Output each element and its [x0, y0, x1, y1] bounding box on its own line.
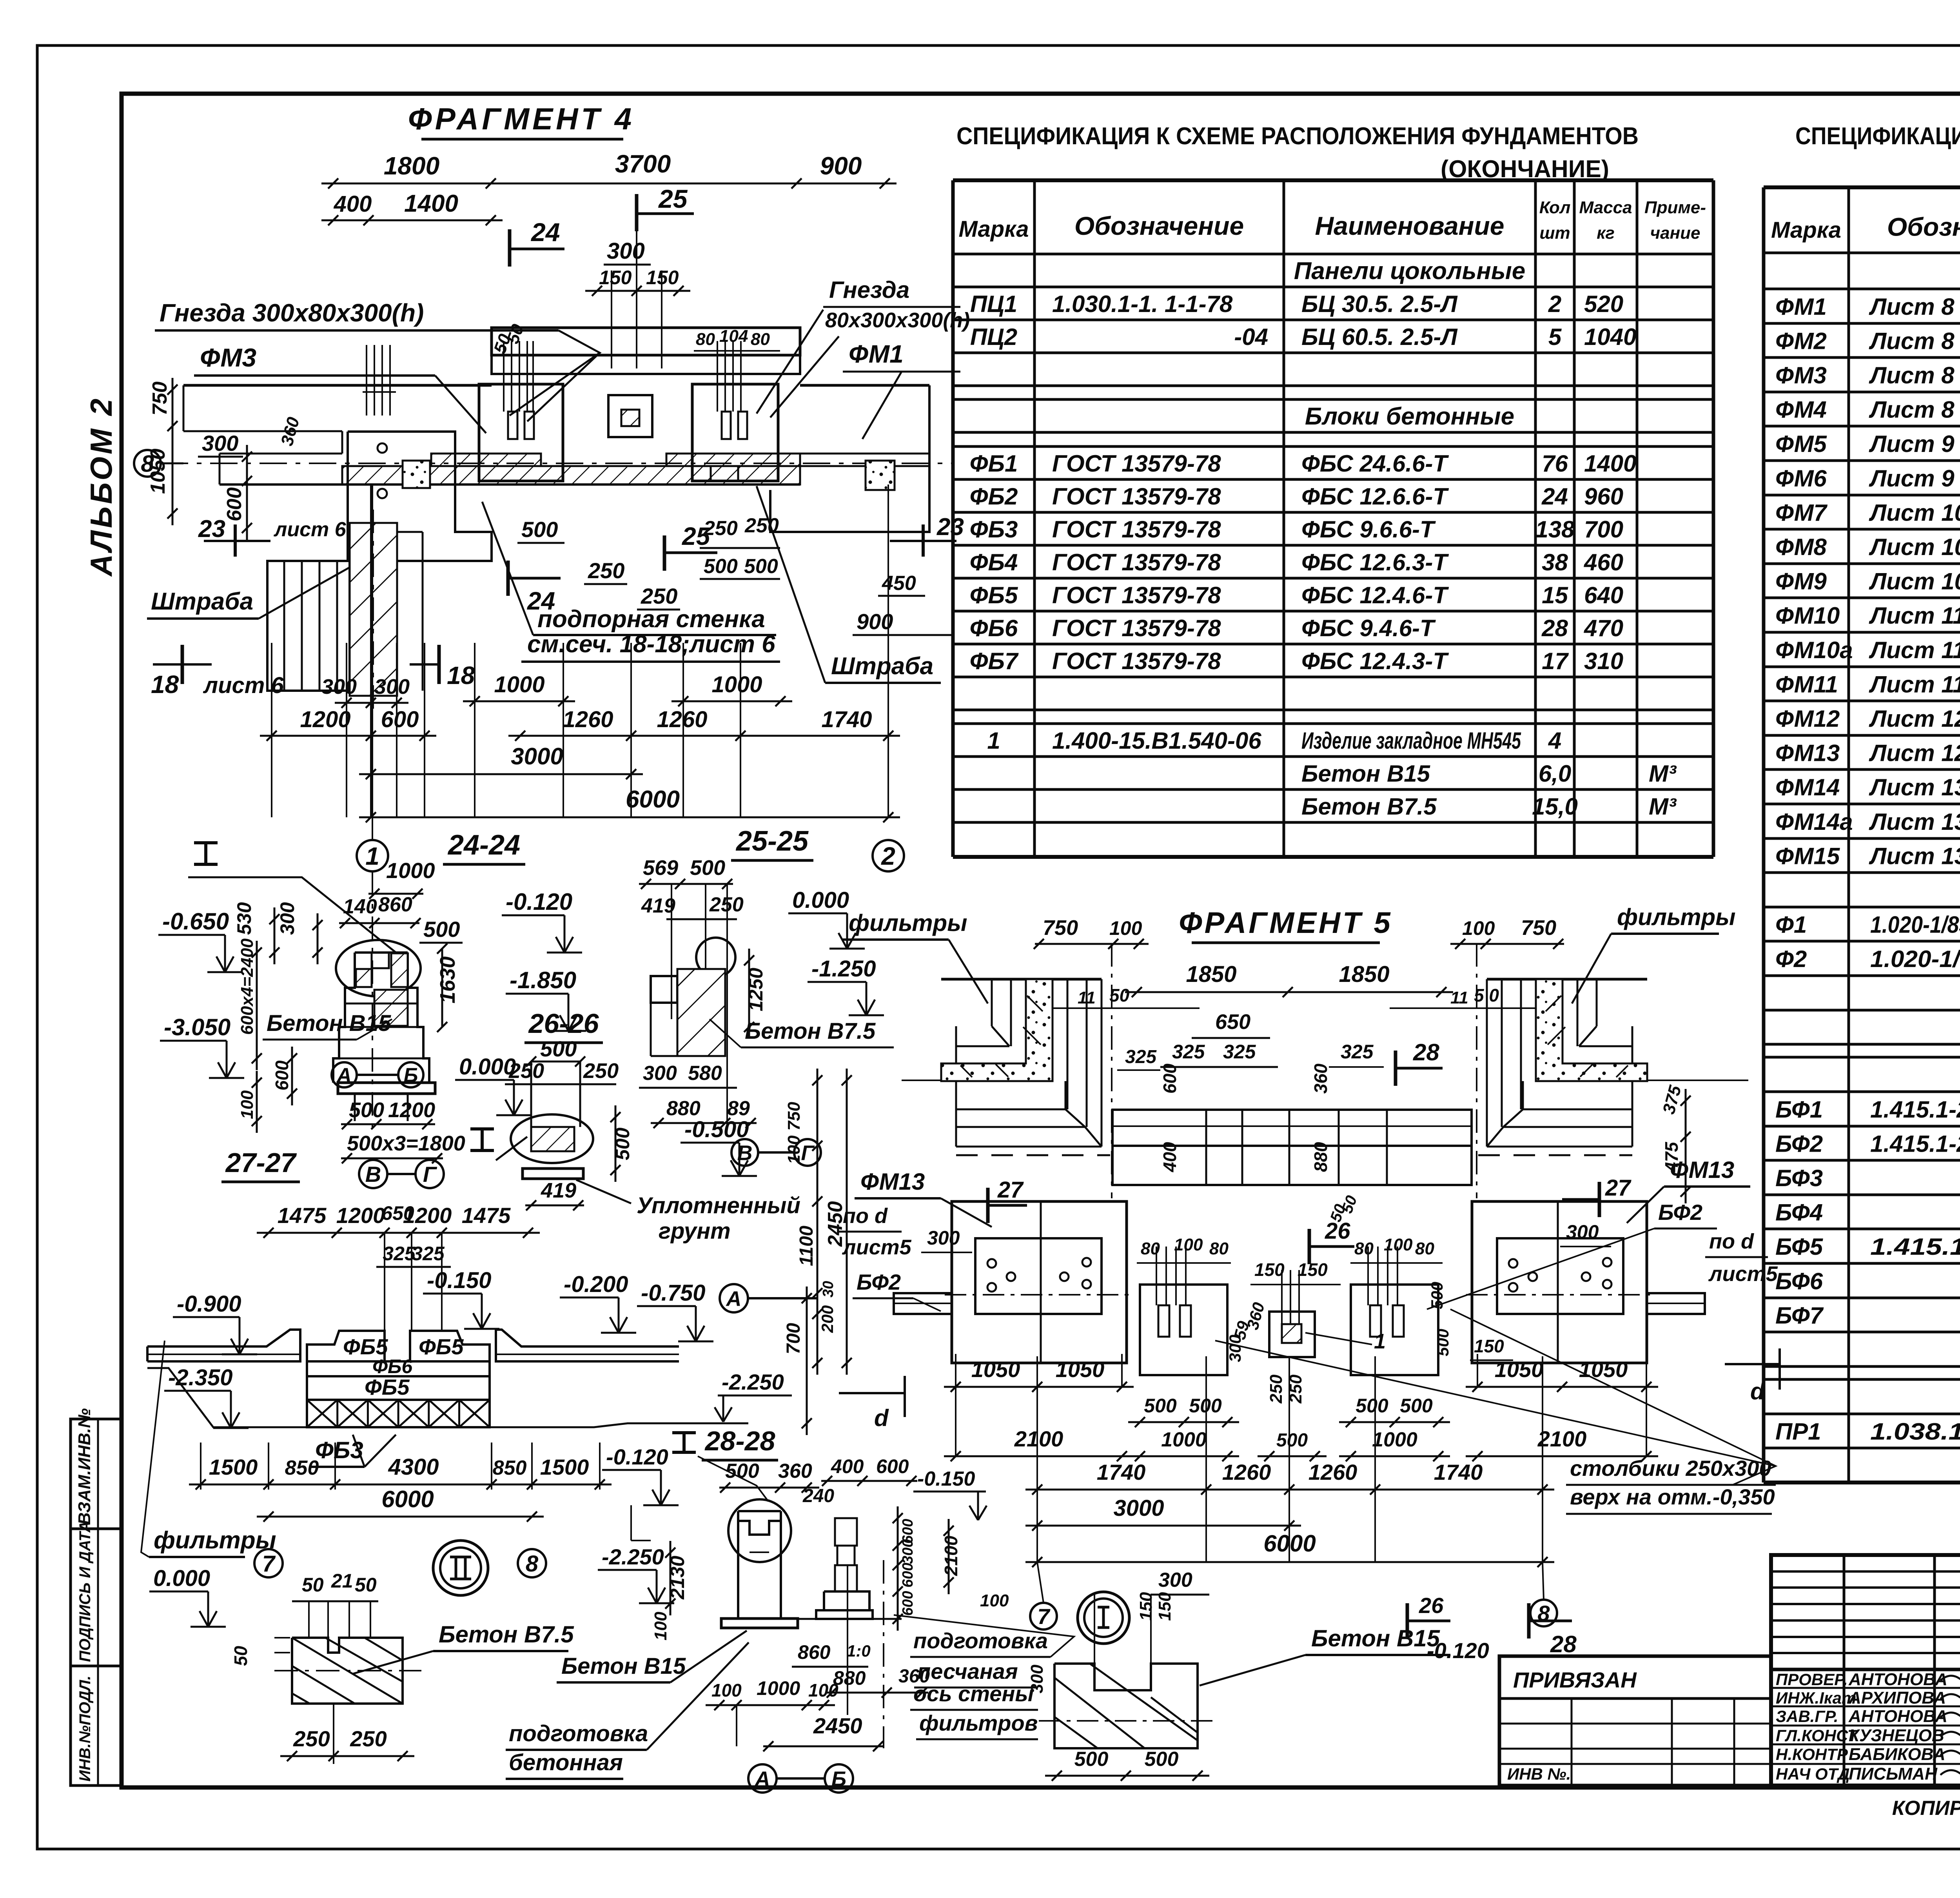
svg-text:ФБС 9.4.6-Т: ФБС 9.4.6-Т	[1301, 615, 1436, 641]
dotted wall band right (L-shape)	[1536, 979, 1647, 1081]
svg-text:ФБС 12.6.6-Т: ФБС 12.6.6-Т	[1301, 483, 1449, 510]
svg-text:80: 80	[1354, 1239, 1374, 1258]
svg-text:300: 300	[927, 1227, 960, 1249]
svg-text:Лист 8: Лист 8	[1869, 397, 1955, 423]
svg-text:2100: 2100	[941, 1535, 961, 1576]
svg-text:600: 600	[381, 707, 419, 732]
base flange 28-28	[721, 1619, 798, 1628]
svg-text:лист 6: лист 6	[273, 518, 347, 541]
svg-text:ФБ7: ФБ7	[970, 648, 1019, 674]
svg-text:1400: 1400	[1584, 450, 1636, 477]
svg-text:5: 5	[1548, 324, 1562, 350]
svg-text:БЦ 60.5. 2.5-Л: БЦ 60.5. 2.5-Л	[1301, 324, 1458, 350]
base slab 24-24	[338, 1083, 435, 1094]
svg-text:Марка: Марка	[1771, 218, 1841, 243]
elevation 0.000 top left of 28-28 (in f5 zone)	[631, 1540, 651, 1541]
svg-text:Бетон В7.5: Бетон В7.5	[439, 1621, 574, 1648]
svg-text:ФБ5: ФБ5	[419, 1334, 464, 1359]
svg-text:300: 300	[900, 1539, 916, 1564]
svg-text:1260: 1260	[1222, 1460, 1271, 1484]
svg-text:-0.500: -0.500	[684, 1117, 749, 1142]
dim 6000	[257, 1516, 544, 1518]
svg-text:ФБ5: ФБ5	[365, 1375, 410, 1399]
sign I with leader to col 24-24	[194, 841, 218, 844]
axis circles 7 II 8	[254, 1549, 283, 1577]
vertical dim chain left of fragment 5	[846, 1069, 848, 1375]
svg-text:Лист 13: Лист 13	[1869, 809, 1960, 835]
right slab 27-27	[496, 1330, 679, 1361]
svg-text:d: d	[1750, 1378, 1765, 1404]
extension verticals f5	[1036, 1356, 1038, 1562]
svg-text:8: 8	[526, 1551, 539, 1577]
svg-text:18: 18	[447, 661, 475, 690]
svg-text:-0.120: -0.120	[606, 1444, 668, 1469]
svg-text:АНТОНОВА: АНТОНОВА	[1848, 1707, 1947, 1726]
svg-text:1.038.1-1. Вып.1: 1.038.1-1. Вып.1	[1870, 1419, 1960, 1445]
svg-text:ГОСТ 13579-78: ГОСТ 13579-78	[1052, 450, 1221, 477]
right spec table grid	[1762, 187, 1766, 1482]
sign II at 26-26	[470, 1127, 494, 1130]
column block 2	[692, 384, 778, 481]
dotted wall band left (L-shape)	[941, 979, 1053, 1081]
svg-text:Лист 9: Лист 9	[1869, 465, 1955, 492]
svg-text:100: 100	[1109, 917, 1142, 939]
dim 3000 f5	[1025, 1525, 1301, 1527]
svg-text:250: 250	[293, 1726, 330, 1751]
svg-text:500: 500	[540, 1036, 577, 1061]
svg-text:300: 300	[321, 675, 357, 699]
circles A B bottom	[748, 1764, 777, 1793]
dashed axis through band	[161, 463, 953, 464]
23 mark right	[922, 524, 925, 557]
svg-text:Блоки бетонные: Блоки бетонные	[1305, 403, 1514, 430]
X-braced band	[307, 1400, 490, 1427]
svg-text:ФМ3: ФМ3	[200, 343, 256, 372]
svg-text:500: 500	[1428, 1282, 1446, 1309]
left margin stamp boxes	[71, 1419, 122, 1529]
center pier left	[1140, 1285, 1227, 1375]
svg-text:Панели цокольные: Панели цокольные	[1294, 258, 1526, 285]
middle spec table grid	[951, 180, 955, 857]
svg-text:150: 150	[1254, 1259, 1285, 1280]
main band outline	[183, 384, 492, 387]
svg-text:-2.250: -2.250	[722, 1370, 784, 1394]
svg-text:ФБС 12.4.6-Т: ФБС 12.4.6-Т	[1301, 582, 1449, 608]
svg-text:ФБ1: ФБ1	[970, 450, 1018, 477]
svg-text:500: 500	[744, 555, 778, 578]
svg-text:300: 300	[276, 902, 298, 935]
svg-text:50: 50	[1109, 985, 1130, 1005]
svg-text:100: 100	[1384, 1235, 1413, 1254]
svg-text:ФБС 9.6.6-Т: ФБС 9.6.6-Т	[1301, 516, 1436, 543]
svg-text:28: 28	[1541, 615, 1568, 641]
bubble circle 28-28	[728, 1499, 791, 1562]
svg-text:ПИСЬМАН: ПИСЬМАН	[1849, 1764, 1938, 1784]
dims 1050 1050 right	[1466, 1386, 1658, 1388]
svg-text:ФМ8: ФМ8	[1775, 534, 1827, 560]
svg-text:М³: М³	[1649, 793, 1677, 820]
elevation 0.000 25-25	[788, 913, 847, 915]
svg-text:600: 600	[223, 487, 246, 521]
svg-text:15: 15	[1542, 582, 1568, 608]
elevation 0.000 26-26	[455, 1079, 514, 1081]
svg-text:Лист 9: Лист 9	[1869, 431, 1955, 457]
FB5 band2	[307, 1376, 490, 1400]
svg-text:1475: 1475	[462, 1203, 511, 1228]
svg-text:18: 18	[151, 670, 179, 699]
svg-text:28-28: 28-28	[704, 1426, 775, 1456]
svg-text:6000: 6000	[626, 786, 680, 813]
svg-text:ФБ2: ФБ2	[970, 483, 1018, 510]
svg-text:Уплотненный: Уплотненный	[637, 1193, 800, 1218]
svg-text:1050: 1050	[1495, 1357, 1544, 1382]
svg-text:30: 30	[820, 1281, 837, 1297]
dim 1850 1850	[1125, 991, 1453, 993]
dim 1630	[441, 949, 443, 1027]
svg-text:500: 500	[612, 1127, 633, 1160]
svg-text:700: 700	[783, 1323, 804, 1354]
svg-text:100: 100	[1462, 917, 1495, 939]
dim 6000	[359, 817, 900, 818]
svg-text:-0.750: -0.750	[641, 1280, 705, 1306]
svg-text:50: 50	[302, 1574, 324, 1596]
dims 500 500 under block	[1045, 1775, 1209, 1777]
dims 250 250 under footing	[333, 1704, 334, 1764]
svg-text:5 0: 5 0	[1474, 985, 1499, 1005]
svg-text:50: 50	[230, 1646, 251, 1666]
svg-text:ГОСТ 13579-78: ГОСТ 13579-78	[1052, 516, 1221, 543]
svg-text:подготовка: подготовка	[913, 1628, 1048, 1653]
svg-text:ФМ9: ФМ9	[1775, 568, 1827, 595]
svg-text:Бетон В7.5: Бетон В7.5	[1301, 793, 1437, 820]
svg-text:-0.120: -0.120	[506, 889, 572, 915]
svg-text:530: 530	[233, 902, 255, 935]
svg-text:1050: 1050	[1579, 1357, 1628, 1382]
svg-text:Бетон В15: Бетон В15	[267, 1011, 391, 1036]
svg-text:500: 500	[521, 517, 558, 542]
svg-text:300: 300	[374, 675, 410, 699]
svg-text:-0.900: -0.900	[177, 1291, 241, 1317]
svg-text:ГОСТ 13579-78: ГОСТ 13579-78	[1052, 549, 1221, 575]
column 28-28 with key notch	[738, 1511, 781, 1535]
svg-text:1260: 1260	[657, 707, 707, 732]
svg-text:860: 860	[798, 1641, 831, 1663]
FB6 band	[307, 1361, 490, 1376]
svg-text:-1.250: -1.250	[811, 956, 876, 982]
svg-text:фильтров: фильтров	[919, 1711, 1038, 1735]
svg-text:бетонная: бетонная	[509, 1750, 623, 1775]
left block FM3 outline	[348, 432, 492, 561]
svg-text:ФБ6: ФБ6	[970, 615, 1018, 641]
circles A B under 26-26	[332, 1062, 357, 1087]
svg-text:50: 50	[355, 1574, 377, 1596]
svg-text:1740: 1740	[1434, 1460, 1483, 1484]
mark 28 top	[1394, 1051, 1397, 1086]
svg-text:1100: 1100	[796, 1225, 817, 1266]
svg-text:1:0: 1:0	[847, 1642, 871, 1660]
center pier middle small	[1269, 1312, 1315, 1357]
svg-text:БФ5: БФ5	[1775, 1234, 1824, 1260]
lower nested corner right	[1523, 1109, 1632, 1110]
svg-text:А: А	[336, 1064, 352, 1087]
svg-text:ФМ13: ФМ13	[1775, 740, 1840, 766]
svg-text:100: 100	[711, 1680, 742, 1700]
left filter block	[952, 1201, 1127, 1363]
svg-text:23: 23	[198, 515, 225, 543]
svg-text:ФБС 12.4.3-Т: ФБС 12.4.3-Т	[1301, 648, 1449, 674]
svg-text:1040: 1040	[1584, 324, 1636, 350]
svg-text:600х4=2400: 600х4=2400	[238, 938, 257, 1035]
svg-text:1850: 1850	[1339, 962, 1389, 987]
svg-text:1800: 1800	[384, 152, 439, 180]
svg-text:1: 1	[1374, 1330, 1386, 1353]
svg-text:2130: 2130	[666, 1556, 688, 1600]
svg-text:150: 150	[1474, 1336, 1504, 1356]
svg-text:500: 500	[1400, 1395, 1433, 1417]
svg-text:0.000: 0.000	[792, 887, 849, 913]
svg-text:27: 27	[997, 1177, 1024, 1203]
svg-text:1250: 1250	[745, 968, 767, 1011]
mark 27 right	[1598, 1182, 1601, 1217]
svg-text:АЛЬБОМ 2: АЛЬБОМ 2	[84, 396, 118, 577]
svg-text:325: 325	[1223, 1041, 1256, 1063]
center beam band	[1112, 1110, 1472, 1146]
svg-text:1: 1	[987, 728, 1000, 754]
circles V G under 24-24	[359, 1160, 387, 1188]
svg-text:Лист 12: Лист 12	[1869, 706, 1960, 732]
svg-text:25-25: 25-25	[735, 826, 809, 857]
svg-text:150: 150	[1136, 1592, 1156, 1621]
dim 3000	[359, 773, 643, 775]
svg-text:ПЦ2: ПЦ2	[970, 324, 1017, 350]
svg-text:23: 23	[936, 514, 964, 541]
left vertical dims 750/1050	[172, 378, 174, 525]
svg-text:4300: 4300	[388, 1454, 439, 1480]
svg-text:песчаная: песчаная	[917, 1659, 1018, 1684]
svg-text:ВЗАМ.ИНВ.№: ВЗАМ.ИНВ.№	[75, 1408, 94, 1525]
svg-text:1000: 1000	[757, 1677, 800, 1699]
27-27 top dims 1475/1200/650/1200/1475	[257, 1232, 540, 1234]
svg-text:1200: 1200	[300, 707, 350, 732]
25-25 body	[651, 976, 677, 1003]
svg-text:В: В	[737, 1141, 753, 1165]
dim 2130 rot	[670, 1541, 671, 1615]
svg-text:БФ4: БФ4	[1775, 1199, 1823, 1226]
svg-text:500: 500	[1356, 1395, 1388, 1417]
svg-text:400: 400	[1160, 1142, 1180, 1172]
svg-text:200: 200	[818, 1305, 837, 1333]
pill bubble 26-26	[511, 1114, 593, 1163]
FB5 blocks	[307, 1331, 385, 1361]
column block 1	[479, 384, 563, 481]
axis A mark left of BF2 stub	[720, 1284, 748, 1312]
svg-text:Ф1: Ф1	[1775, 912, 1807, 938]
elevation -1.850	[506, 993, 568, 995]
svg-text:АНТОНОВА: АНТОНОВА	[1848, 1670, 1947, 1689]
svg-text:11: 11	[1450, 988, 1468, 1007]
svg-text:М³: М³	[1649, 760, 1677, 787]
right block outline	[770, 385, 929, 532]
svg-text:-2.350: -2.350	[168, 1365, 232, 1390]
svg-text:Лист 11: Лист 11	[1869, 637, 1960, 663]
svg-text:880: 880	[1310, 1142, 1331, 1172]
svg-text:Лист 8: Лист 8	[1869, 294, 1955, 320]
rotated chain 600 300 600 600 + 2100	[897, 1506, 899, 1631]
hatched pier	[350, 523, 397, 696]
right corner wall structure	[1487, 978, 1647, 981]
svg-text:ФБС 12.6.3-Т: ФБС 12.6.3-Т	[1301, 549, 1449, 575]
svg-text:БЦ 30.5. 2.5-Л: БЦ 30.5. 2.5-Л	[1301, 291, 1458, 317]
lower nested corner left	[956, 1109, 1065, 1110]
elevation -2.250	[598, 1569, 657, 1571]
svg-text:-3.050: -3.050	[164, 1014, 230, 1040]
svg-text:ПОДПИСЬ И ДАТА: ПОДПИСЬ И ДАТА	[76, 1521, 94, 1662]
23 list6 mark left	[234, 524, 237, 557]
svg-text:Лист 8: Лист 8	[1869, 362, 1955, 388]
svg-text:24-24: 24-24	[447, 829, 520, 861]
svg-text:500: 500	[1276, 1430, 1308, 1451]
svg-text:38: 38	[1542, 549, 1568, 575]
left BF2 stub beam	[894, 1293, 952, 1314]
svg-text:фильтры: фильтры	[1617, 904, 1735, 930]
svg-text:ФРАГМЕНТ 4: ФРАГМЕНТ 4	[408, 102, 635, 136]
svg-text:ФМ11: ФМ11	[1775, 671, 1838, 698]
svg-text:В: В	[365, 1162, 381, 1187]
right vert dim 500	[615, 1105, 617, 1182]
svg-text:89: 89	[727, 1097, 750, 1120]
svg-text:1500: 1500	[540, 1455, 589, 1479]
svg-text:325: 325	[1125, 1047, 1157, 1067]
svg-text:Приме-: Приме-	[1644, 198, 1706, 217]
svg-text:419: 419	[641, 895, 675, 917]
svg-text:Гнезда 300х80х300(h): Гнезда 300х80х300(h)	[160, 299, 424, 327]
svg-text:1260: 1260	[1308, 1460, 1357, 1484]
svg-text:ФМ13: ФМ13	[860, 1169, 925, 1195]
svg-text:17: 17	[1542, 648, 1569, 674]
svg-text:2: 2	[1548, 291, 1561, 317]
svg-text:БФ1: БФ1	[1775, 1096, 1823, 1123]
svg-text:подготовка: подготовка	[509, 1721, 648, 1746]
svg-text:0.000: 0.000	[459, 1054, 516, 1080]
axis of filter wall dash-dot	[883, 1560, 884, 1748]
svg-text:Б: Б	[831, 1767, 846, 1791]
svg-text:100: 100	[1174, 1235, 1203, 1254]
svg-text:-0.650: -0.650	[162, 908, 229, 934]
svg-text:360: 360	[778, 1460, 812, 1482]
svg-text:1.415.1-2.1-2 -60: 1.415.1-2.1-2 -60	[1870, 1234, 1960, 1260]
svg-text:250: 250	[703, 517, 738, 540]
svg-text:по d: по d	[843, 1204, 888, 1228]
svg-text:грунт: грунт	[659, 1218, 731, 1244]
svg-text:7: 7	[1037, 1604, 1051, 1629]
bottom dims 1500 850 4300 850 1500	[200, 1443, 201, 1490]
svg-text:1050: 1050	[1056, 1357, 1105, 1382]
rebar vertical lines col1	[503, 341, 505, 412]
dims 1000 1000	[463, 700, 575, 702]
section mark 24 top	[508, 229, 512, 267]
svg-text:500: 500	[1074, 1748, 1109, 1771]
svg-text:80: 80	[1415, 1239, 1434, 1258]
svg-text:150: 150	[1155, 1592, 1174, 1621]
svg-text:d: d	[874, 1405, 889, 1431]
svg-text:1260: 1260	[563, 707, 613, 732]
svg-text:ФМ14: ФМ14	[1775, 774, 1840, 800]
svg-text:ГОСТ 13579-78: ГОСТ 13579-78	[1052, 582, 1221, 608]
svg-text:ФМ4: ФМ4	[1775, 397, 1827, 423]
ground line	[147, 1368, 490, 1427]
svg-text:27: 27	[1605, 1175, 1632, 1201]
svg-text:7: 7	[262, 1551, 276, 1577]
svg-text:600: 600	[876, 1455, 909, 1477]
elevation -0.120	[502, 915, 564, 916]
dims 1050 1050 left	[944, 1386, 1134, 1388]
svg-text:2: 2	[881, 842, 895, 870]
svg-text:80: 80	[1209, 1239, 1229, 1258]
svg-text:ИНВ №.: ИНВ №.	[1507, 1765, 1571, 1783]
25-25 little circle bubble	[696, 938, 735, 977]
svg-text:400: 400	[831, 1455, 864, 1477]
svg-text:1.415.1-2.1-1: 1.415.1-2.1-1	[1870, 1096, 1960, 1123]
svg-text:150: 150	[1298, 1259, 1328, 1280]
right filter block	[1472, 1201, 1647, 1363]
svg-text:325: 325	[412, 1243, 445, 1265]
svg-text:Лист 11: Лист 11	[1869, 671, 1960, 698]
elevation -0.500	[681, 1142, 739, 1144]
svg-text:БФ7: БФ7	[1775, 1303, 1824, 1329]
svg-text:900: 900	[820, 152, 862, 180]
sign I near 28-28	[672, 1431, 696, 1434]
svg-text:1.415.1-2.1-1-02: 1.415.1-2.1-1-02	[1870, 1131, 1960, 1157]
axis circles 7 I 8 bottom f5	[1030, 1603, 1057, 1629]
svg-text:750: 750	[1043, 916, 1078, 940]
svg-text:500: 500	[423, 917, 460, 942]
svg-text:ИНВ.№ПОДЛ.: ИНВ.№ПОДЛ.	[76, 1676, 94, 1782]
svg-text:Бетон В15: Бетон В15	[1311, 1625, 1441, 1651]
svg-text:240: 240	[802, 1486, 834, 1506]
svg-text:по d: по d	[1709, 1230, 1754, 1253]
svg-text:0.000: 0.000	[153, 1566, 210, 1591]
svg-text:138: 138	[1535, 516, 1575, 543]
svg-text:лист5: лист5	[842, 1236, 912, 1259]
svg-text:Ф2: Ф2	[1775, 946, 1807, 972]
svg-text:880: 880	[666, 1097, 701, 1120]
dims 1740 1260 1260 1740	[1025, 1489, 1554, 1491]
svg-text:БАБИКОВА: БАБИКОВА	[1849, 1745, 1945, 1764]
fragment 4 dim 400/1400	[321, 220, 503, 221]
long extension verticals to bottom dims	[271, 643, 272, 817]
svg-text:ФБ4: ФБ4	[970, 549, 1018, 575]
svg-text:500: 500	[704, 555, 738, 578]
svg-text:Бетон В15: Бетон В15	[1301, 760, 1431, 787]
svg-text:БФ2: БФ2	[1658, 1200, 1702, 1225]
svg-text:1200: 1200	[336, 1203, 385, 1228]
svg-text:БФ2: БФ2	[857, 1270, 901, 1294]
svg-text:750: 750	[1521, 916, 1556, 940]
svg-text:фильтры: фильтры	[849, 910, 967, 936]
svg-text:верх на отм.-0,350: верх на отм.-0,350	[1570, 1484, 1775, 1509]
svg-text:11: 11	[1078, 988, 1096, 1007]
18 right	[437, 645, 441, 684]
svg-text:1200: 1200	[388, 1098, 435, 1122]
svg-text:3700: 3700	[615, 150, 671, 178]
svg-text:1475: 1475	[278, 1203, 327, 1228]
svg-text:Кол: Кол	[1539, 198, 1571, 217]
svg-text:Лист 13: Лист 13	[1869, 843, 1960, 869]
small dotted pad left	[403, 461, 430, 488]
svg-text:ФБ6: ФБ6	[372, 1355, 413, 1377]
svg-text:БФ6: БФ6	[1775, 1268, 1823, 1294]
svg-text:580: 580	[688, 1062, 722, 1085]
